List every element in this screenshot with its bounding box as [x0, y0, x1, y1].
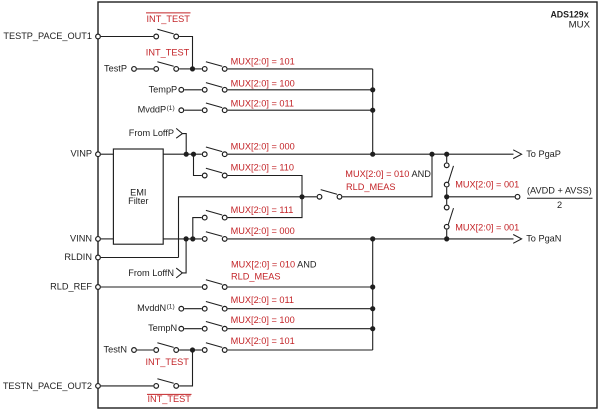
svg-text:MUX[2:0] = 010 AND: MUX[2:0] = 010 AND: [231, 260, 317, 270]
svg-text:INT_TEST: INT_TEST: [148, 394, 192, 404]
terminal RLD_REF: [50, 281, 100, 291]
node VINN b: [190, 236, 195, 241]
terminal TempN: [148, 323, 184, 333]
wire MvddN: [184, 308, 202, 310]
terminal VINN: [70, 233, 100, 243]
switch MUX111 (VINN to RLD node): [202, 210, 227, 220]
terminal TESTN_PACE_OUT2: [3, 381, 101, 391]
svg-text:MUX[2:0] = 111: MUX[2:0] = 111: [231, 205, 294, 215]
svg-text:MUX[2:0] = 101: MUX[2:0] = 101: [231, 336, 295, 346]
svg-text:2: 2: [557, 200, 562, 210]
node VINP b: [191, 152, 196, 157]
switch MUX000 (VINP to PgaP): [202, 147, 227, 157]
wire RLDIN riser to mid node: [179, 197, 317, 258]
switch INT_TEST (TestP path): [154, 62, 179, 72]
wire MUX111 to mid node: [228, 197, 302, 218]
wire RLDIN: [101, 257, 179, 259]
wire TESTN_PACE_OUT2 to switch: [101, 385, 153, 387]
wire PgaP line: [228, 153, 514, 155]
switch INT_TEST-bar (TESTN_PACE_OUT2 path): [154, 379, 179, 389]
wire junction to MUX101 switch: [193, 68, 202, 70]
node PgaP-bus: [370, 152, 375, 157]
terminal TestN: [104, 345, 137, 355]
terminal TestP: [104, 63, 136, 73]
node PgaP-RLDmeas: [429, 152, 434, 157]
switch MUX101 (TestN): [202, 343, 227, 353]
switch MUX011 (MvddP): [202, 103, 227, 113]
wire VINP to EMI filter: [101, 153, 113, 155]
wire to AVDD node: [446, 188, 448, 197]
wire TestP: [137, 68, 153, 70]
node TempN-bus: [370, 326, 375, 331]
wire to TestP junction: [179, 68, 192, 70]
wire RLD_REF to switch: [101, 286, 202, 288]
svg-text:MUX[2:0] = 100: MUX[2:0] = 100: [231, 78, 295, 88]
switch MUX001 lower (PgaN to midsupply): [444, 205, 453, 229]
svg-text:INT_TEST: INT_TEST: [146, 357, 190, 367]
node MvddP-bus: [370, 108, 375, 113]
terminal (AVDD+AVSS)/2: [515, 194, 520, 199]
node MvddN-bus: [370, 306, 375, 311]
switch MUX100 (TempP): [202, 83, 227, 93]
svg-text:RLD_MEAS: RLD_MEAS: [346, 182, 396, 192]
svg-text:ADS129x: ADS129x: [550, 10, 588, 20]
wire EMI to VINP node: [163, 153, 202, 155]
wire VINN node up to MUX111 switch: [193, 218, 202, 239]
node VINN a: [184, 236, 189, 241]
node RLDREF-bus: [370, 284, 375, 289]
wire MUX110 to mid node: [228, 176, 302, 197]
wire RLD_MEAS switch up to PgaP line: [342, 154, 432, 197]
svg-text:VINP: VINP: [71, 149, 92, 159]
terminal TESTP_PACE_OUT1: [3, 31, 100, 41]
svg-text:RLD_REF: RLD_REF: [50, 281, 92, 291]
svg-text:TempP: TempP: [149, 84, 178, 94]
wire TESTP_PACE_OUT1 to switch: [101, 36, 153, 38]
terminal MvddN (1): [137, 303, 184, 313]
svg-text:MvddP: MvddP: [138, 105, 167, 115]
P bus vertical: [372, 69, 374, 154]
wire TempP switch to P bus: [228, 89, 373, 91]
wire EMI to VINN node: [163, 238, 202, 240]
terminal VINP: [71, 149, 101, 159]
switch RLD_REF (MUX010 AND RLD_MEAS): [202, 280, 227, 290]
wire AVDD branch vertical top: [446, 154, 448, 162]
wire MvddN switch to N bus: [228, 308, 373, 310]
svg-text:MUX[2:0] = 101: MUX[2:0] = 101: [231, 57, 295, 67]
wire VINN to EMI filter: [101, 238, 113, 240]
wire to TestN junction: [179, 349, 192, 351]
terminal MvddP (1): [138, 105, 184, 115]
svg-text:Filter: Filter: [128, 196, 148, 206]
N bus vertical: [372, 239, 374, 350]
svg-text:TestP: TestP: [104, 63, 127, 73]
switch INT_TEST (TestN path): [154, 343, 179, 353]
wire TestN: [137, 349, 153, 351]
wire MvddP switch to P bus: [228, 109, 373, 111]
svg-text:MUX[2:0] = 011: MUX[2:0] = 011: [231, 99, 294, 109]
svg-text:INT_TEST: INT_TEST: [147, 14, 191, 24]
svg-text:MvddN: MvddN: [137, 303, 166, 313]
svg-text:TESTP_PACE_OUT1: TESTP_PACE_OUT1: [3, 31, 92, 41]
svg-text:MUX: MUX: [569, 20, 591, 31]
svg-text:(AVDD + AVSS): (AVDD + AVSS): [527, 186, 592, 196]
wire PgaN line: [228, 238, 514, 240]
node PgaN-bus: [370, 236, 375, 241]
wire lower switch to PgaN line: [446, 230, 448, 239]
svg-text:MUX[2:0] = 010 AND: MUX[2:0] = 010 AND: [345, 169, 431, 179]
node RLD mid: [299, 194, 304, 199]
arrow From LoffN: [176, 239, 186, 278]
switch MUX101 (TestP): [202, 62, 227, 72]
svg-text:INT_TEST: INT_TEST: [146, 47, 190, 57]
wire AVDD line to terminal: [447, 196, 515, 198]
svg-text:TestN: TestN: [104, 345, 127, 355]
svg-text:TempN: TempN: [148, 323, 177, 333]
svg-text:RLD_MEAS: RLD_MEAS: [231, 272, 281, 282]
wire TempN: [184, 328, 202, 330]
label INT_TEST (active low, overline) bottom: [147, 394, 192, 404]
wire TestN switch to N bus: [228, 349, 373, 351]
wire TempP: [184, 89, 202, 91]
node TempP-bus: [370, 87, 375, 92]
switch MUX110 (VINP to RLD node): [202, 168, 227, 178]
wire RLD_REF switch to N bus: [228, 286, 373, 288]
svg-text:VINN: VINN: [70, 233, 92, 243]
switch MUX001 upper (PgaP to midsupply): [444, 163, 453, 187]
node VINP a: [184, 152, 189, 157]
label MUX010 AND RLD_MEAS (upper): [345, 169, 431, 192]
svg-text:MUX[2:0] = 110: MUX[2:0] = 110: [231, 162, 294, 172]
node PgaP-AVDD branch: [444, 152, 449, 157]
switch MUX011 (MvddN): [202, 302, 227, 312]
wire AVDD node to lower switch: [446, 197, 448, 205]
svg-text:TESTN_PACE_OUT2: TESTN_PACE_OUT2: [3, 381, 92, 391]
svg-text:MUX[2:0] = 001: MUX[2:0] = 001: [455, 180, 519, 190]
switch MUX100 (TempN): [202, 322, 227, 332]
svg-text:To PgaP: To PgaP: [526, 149, 561, 159]
wire TempN switch to N bus: [228, 328, 373, 330]
switch RLD_MEAS (mid node to PgaP): [317, 190, 342, 200]
terminal RLDIN: [64, 252, 100, 262]
wire switch to TestN node: [179, 350, 192, 386]
svg-text:To PgaN: To PgaN: [526, 234, 561, 244]
wire junction to MUX101 switch: [193, 349, 202, 351]
arrowhead To PgaP: [513, 150, 521, 159]
arrowhead To PgaN: [513, 235, 521, 244]
node PgaN-AVDD branch: [444, 236, 449, 241]
EMI filter box: [113, 149, 163, 244]
label MUX010 AND RLD_MEAS (lower): [231, 260, 317, 282]
svg-text:MUX[2:0] = 011: MUX[2:0] = 011: [231, 295, 294, 305]
node AVDD line: [444, 194, 449, 199]
terminal TempP: [149, 84, 184, 94]
node TestN junction: [190, 347, 195, 352]
arrow From LoffP: [176, 128, 186, 154]
svg-text:(1): (1): [167, 303, 175, 310]
wire VINP node down to MUX110 switch: [194, 154, 202, 175]
label (AVDD+AVSS)/2: [527, 186, 593, 211]
svg-text:MUX[2:0] = 001: MUX[2:0] = 001: [455, 223, 519, 233]
switch MUX000 (VINN to PgaN): [202, 232, 227, 242]
svg-text:(1): (1): [167, 105, 175, 112]
switch INT_TEST-bar (TESTP_PACE_OUT1 path): [154, 29, 179, 39]
svg-text:From LoffN: From LoffN: [128, 268, 174, 278]
wire switch to TestP node: [179, 37, 192, 69]
svg-text:MUX[2:0] = 000: MUX[2:0] = 000: [231, 226, 295, 236]
wire MvddP: [184, 109, 202, 111]
svg-text:MUX[2:0] = 000: MUX[2:0] = 000: [231, 142, 295, 152]
node TestP junction: [190, 66, 195, 71]
svg-text:From LoffP: From LoffP: [129, 128, 174, 138]
label INT_TEST (active low, overline) top: [146, 13, 191, 24]
svg-text:RLDIN: RLDIN: [64, 252, 92, 262]
wire TestP switch to P bus: [228, 68, 373, 70]
svg-text:MUX[2:0] = 100: MUX[2:0] = 100: [231, 315, 295, 325]
